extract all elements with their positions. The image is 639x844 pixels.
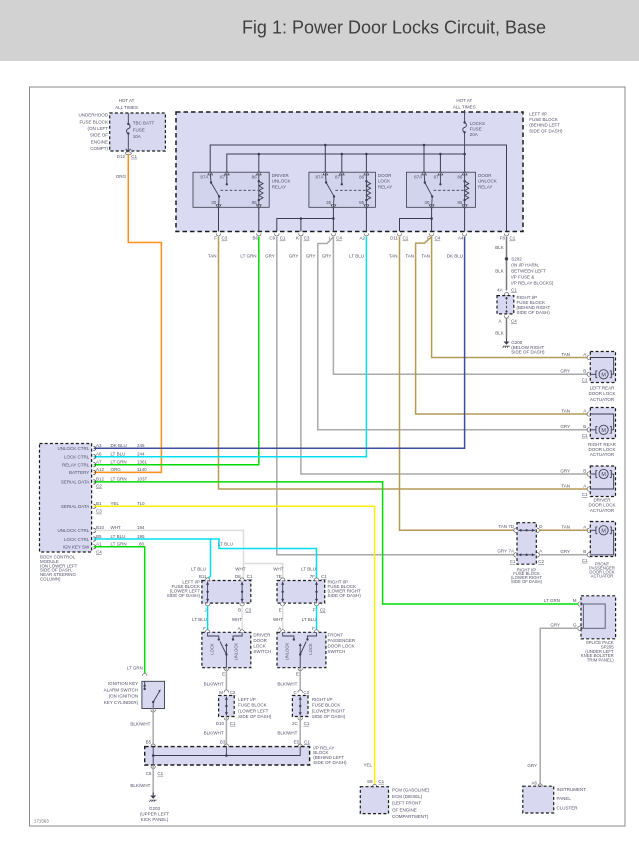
svg-text:SIDE OF DASH): SIDE OF DASH) (511, 579, 543, 584)
wire GRY splice G to cluster A6 (540, 628, 578, 784)
svg-text:LOCK CTRL: LOCK CTRL (64, 537, 90, 542)
svg-text:DOOR: DOOR (378, 173, 392, 178)
svg-text:LOCK CTRL: LOCK CTRL (64, 455, 90, 460)
svg-text:GRY: GRY (265, 254, 275, 259)
svg-text:ENGINE: ENGINE (91, 139, 108, 144)
wire BLK/WHT ign switch to IP relay block (152, 709, 154, 746)
svg-text:HOT AT: HOT AT (119, 98, 135, 103)
svg-text:BLK/WHT: BLK/WHT (130, 783, 150, 788)
label G200 (511, 340, 545, 355)
svg-text:B10: B10 (96, 525, 105, 530)
svg-text:LT GRN: LT GRN (111, 460, 127, 465)
svg-text:FUSE BLOCK: FUSE BLOCK (238, 703, 267, 708)
svg-text:ECM (DIESEL): ECM (DIESEL) (392, 794, 423, 799)
svg-text:ACTUATOR: ACTUATOR (591, 573, 614, 578)
fuse TBC BATT 10A (127, 113, 131, 151)
svg-text:DOOR: DOOR (253, 638, 267, 643)
pin label A4 (458, 236, 464, 241)
svg-text:TAN: TAN (561, 525, 570, 530)
svg-text:7F: 7F (310, 574, 316, 579)
svg-text:86: 86 (252, 174, 258, 179)
svg-text:ACTUATOR: ACTUATOR (590, 508, 615, 513)
svg-text:FUSE: FUSE (470, 127, 482, 132)
connector M (578, 602, 583, 607)
right IP fuse block (lower) label (511, 567, 543, 584)
label LT BLU (branch) (218, 542, 233, 547)
svg-text:DK BLU: DK BLU (447, 254, 463, 259)
IP relay block internal bus (152, 747, 300, 765)
svg-text:(LEFT FRONT: (LEFT FRONT (392, 801, 421, 806)
label C3 (BCM) (96, 509, 102, 514)
label C2 (BCM) (96, 483, 102, 488)
label E (fuse block) (279, 607, 282, 612)
svg-text:C1: C1 (511, 287, 517, 292)
svg-text:FUSE BLOCK: FUSE BLOCK (529, 117, 558, 122)
pin label A2 (359, 236, 365, 241)
svg-text:LOCK: LOCK (308, 643, 313, 655)
svg-text:87A: 87A (414, 174, 422, 179)
label LT BLU (7F) (301, 566, 316, 571)
label A C4 (498, 318, 517, 323)
svg-text:1361: 1361 (137, 460, 148, 465)
svg-text:M: M (573, 598, 577, 603)
junction relay2 87A (324, 144, 327, 147)
ignition key alarm switch (142, 681, 165, 708)
left rear door lock actuator (560, 352, 615, 402)
svg-text:LT GRN: LT GRN (544, 598, 560, 603)
wire TAN F-jog to right rear actuator A (416, 237, 589, 414)
svg-text:LT GRN: LT GRN (111, 542, 127, 547)
splice pack SP205 (581, 596, 616, 639)
label GRY (cluster) (527, 763, 537, 768)
label BLK above S202 (495, 245, 504, 250)
title text (242, 18, 546, 38)
svg-text:30: 30 (424, 200, 430, 205)
svg-text:LT GRN: LT GRN (127, 666, 143, 671)
wire BLK/WHT relay block to G203 (152, 765, 154, 795)
svg-text:GRY: GRY (560, 468, 570, 473)
relay K1 driver unlock relay (193, 171, 290, 209)
svg-text:I/P FUSE &: I/P FUSE & (511, 275, 534, 280)
svg-text:FRONT: FRONT (328, 632, 344, 637)
label DK BLU (A4) (447, 254, 463, 259)
bus 87/86 (battery bus) (227, 154, 465, 172)
svg-text:UNLOCK CTRL: UNLOCK CTRL (58, 528, 90, 533)
left IP fuse block (lower left dash) (202, 581, 251, 604)
PCM/ECM box (360, 787, 388, 814)
svg-text:LT BLU: LT BLU (218, 542, 233, 547)
BCM pins and labels (58, 443, 148, 549)
fuse LOCKS 20A (463, 110, 467, 154)
label B11 (199, 574, 207, 579)
svg-text:E5: E5 (294, 739, 300, 744)
svg-text:IGNITION KEY: IGNITION KEY (108, 681, 138, 686)
svg-text:GRY: GRY (550, 622, 560, 627)
svg-text:M: M (601, 528, 606, 534)
svg-text:C2: C2 (230, 690, 236, 695)
svg-text:F: F (312, 626, 315, 631)
wire relay1 85 to pin B6 (258, 207, 260, 231)
svg-text:SIDE OF: SIDE OF (90, 133, 108, 138)
label 7E (276, 574, 282, 579)
junction relay3 87A (423, 144, 426, 147)
svg-text:C3: C3 (304, 236, 310, 241)
label D8 C1 (235, 574, 253, 579)
svg-text:A: A (583, 483, 586, 488)
relay K2 door lock relay (309, 171, 392, 209)
label GRY (7A) (497, 549, 507, 554)
svg-text:87A: 87A (315, 174, 323, 179)
label B C3 (238, 607, 251, 612)
svg-text:YEL: YEL (363, 762, 372, 767)
IP relay block (145, 747, 310, 765)
connector B5 relay block (151, 744, 156, 747)
svg-text:RELAY: RELAY (478, 184, 492, 189)
svg-text:A1: A1 (96, 542, 102, 547)
svg-text:TBC BATT: TBC BATT (133, 121, 155, 126)
svg-text:TAN: TAN (498, 524, 507, 529)
wire GRY L-jog to right rear actuator B (318, 237, 588, 430)
svg-text:B: B (583, 369, 586, 374)
right IP fuse block (lower right dash, switches) (277, 581, 325, 604)
svg-text:TAN: TAN (405, 254, 414, 259)
svg-text:BLK: BLK (495, 245, 504, 250)
svg-text:BLK/WHT: BLK/WHT (277, 730, 297, 735)
ground G203 (149, 793, 156, 802)
wire YEL serial data to PCM (94, 506, 375, 784)
svg-text:A6: A6 (96, 452, 102, 457)
svg-text:TAN: TAN (561, 483, 570, 488)
svg-text:WHT: WHT (111, 525, 121, 530)
svg-text:LOCK: LOCK (210, 643, 215, 655)
wire relay1 30 to pin F/C3 (218, 207, 220, 231)
svg-text:LT BLU: LT BLU (111, 534, 126, 539)
svg-text:B6: B6 (252, 236, 258, 241)
svg-text:B12: B12 (96, 477, 105, 482)
splice S202 (505, 257, 508, 260)
label BLK/WHT (G203) (130, 783, 150, 788)
wire WHT B to driver switch A (241, 606, 243, 630)
label TAN (D11) (389, 254, 398, 259)
connectors right IP fuse block (280, 578, 318, 606)
wire LT BLU BCM B5 to door lock switches (94, 539, 317, 579)
svg-text:TAN: TAN (389, 254, 398, 259)
svg-text:FUSE BLOCK: FUSE BLOCK (312, 703, 341, 708)
svg-text:195: 195 (137, 534, 145, 539)
svg-text:FUSE: FUSE (133, 127, 145, 132)
svg-text:DOOR: DOOR (478, 173, 492, 178)
svg-text:SWITCH: SWITCH (253, 649, 271, 654)
svg-text:30: 30 (211, 200, 217, 205)
svg-text:C4: C4 (96, 549, 102, 554)
svg-text:S202: S202 (511, 256, 522, 261)
svg-text:A4: A4 (458, 236, 464, 241)
wire ORG underhood fuse to BCM A12 (94, 154, 162, 473)
svg-text:BLK: BLK (495, 269, 504, 274)
svg-text:INSTRUMENT: INSTRUMENT (557, 787, 587, 792)
front passenger door lock actuator (560, 522, 615, 579)
label LT BLU (A2) (349, 254, 364, 259)
right IP fuse block (top) label (517, 295, 551, 315)
svg-text:WHT: WHT (235, 566, 245, 571)
svg-text:87: 87 (220, 174, 226, 179)
connector G (578, 626, 583, 631)
svg-text:ACTUATOR: ACTUATOR (590, 452, 615, 457)
svg-text:RELAY: RELAY (378, 184, 392, 189)
hot at all times (right) (453, 98, 476, 110)
svg-text:C5: C5 (146, 771, 152, 776)
wire relay3 86 to bus (464, 154, 466, 172)
label TAN (F/C3) (208, 254, 217, 259)
label 7A A (508, 549, 542, 554)
svg-text:B3: B3 (220, 739, 226, 744)
label S9 C1 (367, 779, 385, 784)
svg-text:WHT: WHT (273, 617, 283, 622)
svg-text:RIGHT I/P: RIGHT I/P (312, 697, 333, 702)
fuse TBC BATT label (133, 121, 155, 139)
wire WHT BCM B10 to door lock switches (94, 530, 283, 579)
svg-text:C1: C1 (582, 377, 588, 382)
IP relay block label (313, 745, 347, 765)
svg-text:F8: F8 (500, 236, 506, 241)
svg-text:2C: 2C (292, 721, 299, 726)
svg-text:(LOWER LEFT: (LOWER LEFT (238, 708, 269, 713)
svg-text:G203: G203 (149, 806, 161, 811)
driver door lock actuator (560, 466, 615, 513)
label D12 (117, 154, 126, 159)
label TAN (F) (421, 254, 430, 259)
svg-text:C1: C1 (582, 558, 588, 563)
svg-text:D12: D12 (117, 154, 126, 159)
fuse block path 7D-D (518, 529, 535, 532)
svg-text:COLUMN): COLUMN) (40, 576, 61, 581)
svg-text:710: 710 (137, 501, 145, 506)
label F C2 (313, 607, 326, 612)
fuse block path 7A-A (518, 553, 535, 556)
svg-text:GRY: GRY (322, 254, 332, 259)
wire relay2 86 to bus (365, 153, 368, 173)
passenger switch E chain to right IP fuse block (277, 668, 345, 747)
label WHT (pass A) (273, 617, 283, 622)
connector below ign switch (151, 710, 156, 713)
svg-text:LT BLU: LT BLU (111, 452, 126, 457)
connector 4A (504, 293, 509, 296)
svg-text:(LOWER RIGHT: (LOWER RIGHT (312, 708, 346, 713)
svg-text:D8: D8 (235, 574, 241, 579)
label GRY (splice G) (550, 622, 560, 627)
svg-text:BETWEEN LEFT: BETWEEN LEFT (511, 269, 546, 274)
svg-text:F: F (203, 626, 206, 631)
wire relay3 30 to pin F/C4 (431, 207, 433, 231)
wire LT GRN BCM A1 to ignition key alarm switch (94, 547, 145, 674)
svg-text:WHT: WHT (232, 617, 242, 622)
svg-text:C1: C1 (378, 779, 384, 784)
wire LT BLU A2 to BCM A6 (94, 237, 367, 457)
svg-text:80: 80 (139, 542, 145, 547)
hot at all times (left) (115, 98, 138, 110)
bus 87A (ground bus) (210, 145, 506, 232)
svg-text:LT GRN: LT GRN (111, 477, 127, 482)
label C1 C2 (lower-right block) (510, 559, 545, 564)
splice pack label (581, 640, 615, 663)
left IP fuse block (lower) label (167, 580, 201, 599)
svg-text:(IN I/P HARN,: (IN I/P HARN, (511, 262, 539, 267)
svg-text:SIDE OF DASH): SIDE OF DASH) (529, 128, 563, 133)
svg-text:7A: 7A (508, 549, 514, 554)
connector C5 C1 (151, 766, 156, 769)
svg-text:BATTERY: BATTERY (69, 470, 89, 475)
svg-text:SIDE OF DASH): SIDE OF DASH) (167, 593, 201, 598)
svg-text:C1: C1 (131, 154, 137, 159)
label 7D D (508, 524, 543, 529)
svg-text:E: E (296, 671, 299, 676)
svg-text:TAN: TAN (561, 352, 570, 357)
svg-text:GRY: GRY (527, 763, 537, 768)
pin label B6 (252, 236, 258, 241)
svg-text:Fig 1: Power Door Locks Circui: Fig 1: Power Door Locks Circuit, Base (242, 18, 546, 38)
svg-text:ALARM SWITCH: ALARM SWITCH (104, 687, 139, 692)
label B5 (relay block) (146, 739, 152, 744)
svg-text:FUSE BLOCK: FUSE BLOCK (79, 119, 108, 124)
underhood fuse block (110, 113, 166, 151)
svg-text:F: F (214, 236, 217, 241)
label BLK above G200 (495, 330, 504, 335)
svg-text:M: M (601, 472, 606, 478)
label LT BLU (B11) (191, 566, 206, 571)
svg-text:C1: C1 (582, 492, 588, 497)
svg-text:RELAY CTRL: RELAY CTRL (62, 463, 90, 468)
body control module (40, 444, 92, 553)
svg-text:UNLOCK: UNLOCK (272, 179, 291, 184)
svg-text:PASSENGER: PASSENGER (328, 638, 356, 643)
svg-text:C2: C2 (320, 607, 326, 612)
svg-text:RELAY: RELAY (272, 184, 286, 189)
svg-text:UNLOCK: UNLOCK (478, 179, 497, 184)
svg-text:10A: 10A (133, 134, 141, 139)
ground G200 (503, 339, 510, 348)
svg-text:A: A (237, 626, 240, 631)
connectors lower-right fuse block (514, 528, 540, 557)
wire relay3 87A to bus (423, 145, 425, 172)
svg-text:TRIM PANEL): TRIM PANEL) (587, 658, 614, 663)
label C1 (underhood) (131, 154, 137, 159)
svg-text:(ON IGNITION: (ON IGNITION (109, 694, 139, 699)
label WHT (driver A) (232, 617, 242, 622)
svg-text:WHT: WHT (273, 566, 283, 571)
wire TAN relay1-30 to driver actuator A (219, 237, 589, 489)
right IP fuse block (behind right dash) (497, 296, 514, 314)
label BLK/WHT (ign) (130, 722, 150, 727)
svg-text:TAN: TAN (561, 408, 570, 413)
svg-text:KEY CYLINDER): KEY CYLINDER) (104, 700, 139, 705)
svg-text:245: 245 (137, 443, 145, 448)
svg-text:C1: C1 (304, 739, 310, 744)
connector ign key switch (142, 673, 147, 676)
pin label L C4 (329, 236, 342, 241)
wire WHT E to passenger switch A (282, 606, 284, 630)
tee to pins C9 and K (277, 217, 335, 231)
svg-text:20A: 20A (470, 132, 478, 137)
svg-text:LOCK: LOCK (253, 643, 265, 648)
wire LT BLU J to driver switch F (207, 606, 209, 630)
svg-text:UNLOCK CTRL: UNLOCK CTRL (58, 446, 90, 451)
PCM label (392, 788, 430, 819)
right IP fuse block (lower right dash) (517, 523, 536, 565)
label C1 (E5) (304, 739, 310, 744)
svg-text:M: M (601, 428, 606, 434)
svg-text:30: 30 (326, 200, 332, 205)
connector D12-C1 symbol (125, 149, 131, 155)
svg-text:B1: B1 (96, 501, 102, 506)
svg-text:LT GRN: LT GRN (240, 254, 256, 259)
left IP fuse block label (529, 112, 563, 134)
svg-text:C1: C1 (157, 771, 163, 776)
svg-text:B: B (238, 607, 241, 612)
svg-text:LEFT I/P: LEFT I/P (238, 697, 256, 702)
svg-text:C4: C4 (435, 236, 441, 241)
instrument panel cluster (523, 786, 554, 813)
pin label K C3 (296, 236, 310, 241)
wire relay2 30 to pin L/C4 (332, 207, 334, 231)
svg-text:LT BLU: LT BLU (192, 617, 207, 622)
label LT GRN (ign) (127, 666, 143, 671)
svg-text:GRY: GRY (560, 369, 570, 374)
BCM label (40, 555, 78, 582)
wire relay1 86 to bus (258, 153, 261, 173)
svg-text:7E: 7E (276, 574, 282, 579)
right rear door lock actuator (560, 408, 616, 458)
junction fuse to battery bus (463, 153, 466, 156)
label S202 (511, 256, 554, 285)
connector A C4 (504, 316, 509, 319)
label ORG (116, 174, 127, 179)
svg-text:4A: 4A (497, 287, 503, 292)
wire GRY A to passenger actuator B (539, 554, 588, 556)
svg-text:SERIAL DATA: SERIAL DATA (61, 504, 89, 509)
svg-text:K: K (296, 236, 299, 241)
svg-text:LEFT I/P: LEFT I/P (529, 112, 547, 117)
svg-text:C4: C4 (336, 236, 342, 241)
connector S9 (372, 784, 377, 787)
label M (573, 598, 577, 603)
svg-text:UNLOCK: UNLOCK (234, 643, 239, 661)
svg-text:194: 194 (137, 525, 145, 530)
label C4 (BCM) (96, 549, 102, 554)
svg-text:C2: C2 (538, 559, 544, 564)
svg-text:A: A (498, 318, 501, 323)
svg-text:B: B (583, 549, 586, 554)
label LT GRN (splice M) (544, 598, 560, 603)
wire LT GRN relay1-85 to BCM A7 (94, 237, 259, 465)
svg-text:C1: C1 (510, 559, 516, 564)
svg-text:C1: C1 (403, 236, 409, 241)
pin label F C3 (214, 236, 227, 241)
wire BLK F8 to G200 (506, 237, 508, 339)
svg-text:PANEL: PANEL (557, 796, 572, 801)
pin label C9 C1 (269, 236, 286, 241)
wire relay3 85 to pin A4 (464, 207, 466, 231)
svg-text:COMPARTMENT): COMPARTMENT) (392, 814, 429, 819)
label LT BLU (driver F) (192, 617, 207, 622)
wire TAN D11 to RH IP fuse block 7D (400, 237, 515, 531)
svg-text:A: A (583, 408, 586, 413)
svg-text:C9: C9 (269, 236, 275, 241)
label LT GRN (B6) (240, 254, 256, 259)
svg-text:(ON LEFT: (ON LEFT (87, 126, 108, 131)
fuse LOCKS label (470, 121, 485, 137)
ignition key alarm switch label (104, 681, 139, 705)
svg-text:C2: C2 (96, 483, 102, 488)
